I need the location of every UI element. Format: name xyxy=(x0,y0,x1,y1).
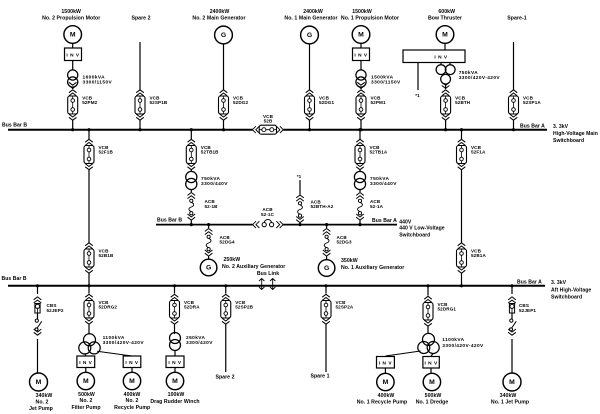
bus link marks xyxy=(257,271,279,290)
node bus junction xyxy=(325,223,328,226)
svg-text:G: G xyxy=(307,32,312,39)
svg-text:Bus Bar B: Bus Bar B xyxy=(2,276,27,282)
svg-text:*1: *1 xyxy=(297,174,302,179)
breaker VCB 52B1B xyxy=(84,243,114,273)
breaker VCB 52SP2B xyxy=(221,294,254,324)
node bus junction xyxy=(190,128,193,131)
svg-text:600kW: 600kW xyxy=(438,9,455,15)
svg-text:52DRA: 52DRA xyxy=(184,305,200,310)
inverter INV - No. 2 recycle pump xyxy=(123,356,141,368)
svg-text:250kW: 250kW xyxy=(224,257,241,263)
node bus junction xyxy=(444,128,447,131)
svg-text:Spare-1: Spare-1 xyxy=(507,16,526,22)
motor M - No. 1 Propulsion Motor xyxy=(352,26,370,44)
breaker VCB 52DRA xyxy=(170,294,201,324)
svg-text:100kW: 100kW xyxy=(168,392,185,398)
svg-text:52DRG1: 52DRG1 xyxy=(438,307,457,312)
wire xyxy=(174,286,176,294)
label 3.3kV High-Voltage Main Switchboard xyxy=(553,124,598,144)
wire xyxy=(190,221,192,225)
fuse contactor CBS 52JEP1 xyxy=(508,297,516,313)
svg-text:No. 1 Dredge: No. 1 Dredge xyxy=(416,400,449,406)
wire xyxy=(427,327,429,334)
breaker VCB 52DRG2 xyxy=(84,294,117,324)
svg-text:No. 1 Main Generator: No. 1 Main Generator xyxy=(284,16,337,22)
svg-text:M: M xyxy=(129,378,135,385)
svg-text:No. 2 Propulsion Motor: No. 2 Propulsion Motor xyxy=(42,16,100,22)
wire xyxy=(445,84,447,89)
svg-text:I N V: I N V xyxy=(125,360,138,366)
wire xyxy=(513,120,515,130)
breaker ACB 52-1A xyxy=(356,193,364,221)
svg-text:3300/1150V: 3300/1150V xyxy=(83,80,113,86)
svg-text:No. 1 Auxiliary Generator: No. 1 Auxiliary Generator xyxy=(341,265,404,271)
wire xyxy=(174,325,176,335)
breaker VCB 52DG1 xyxy=(305,90,335,120)
svg-text:1500kW: 1500kW xyxy=(352,9,372,15)
wire xyxy=(360,61,362,71)
wire xyxy=(72,120,74,130)
svg-text:Bus Bar A: Bus Bar A xyxy=(517,279,542,285)
svg-text:52F1A: 52F1A xyxy=(471,150,486,155)
motor M - Drag Rudder Winch xyxy=(166,372,183,389)
node bus junction xyxy=(510,284,513,287)
breaker ACB 52DG4 xyxy=(205,229,213,257)
svg-text:52SP2A: 52SP2A xyxy=(336,305,354,310)
svg-text:500kW: 500kW xyxy=(425,393,442,399)
inverter INV - No. 2 filter pump xyxy=(77,356,95,368)
generator G - No. 1 Auxiliary Generator xyxy=(318,260,335,277)
wire xyxy=(37,286,39,294)
wire xyxy=(360,43,362,48)
label No. 1 Recycle Pump xyxy=(357,393,408,406)
wire xyxy=(190,190,192,192)
svg-text:M: M xyxy=(509,379,515,386)
wire xyxy=(384,368,386,373)
node bus junction xyxy=(358,223,361,226)
svg-text:I N V: I N V xyxy=(425,360,438,366)
wire xyxy=(174,368,176,373)
node bus junction xyxy=(138,128,141,131)
svg-text:No. 1 Propulsion Motor: No. 1 Propulsion Motor xyxy=(341,16,399,22)
svg-text:M: M xyxy=(172,378,178,385)
wire feeder to aft switchboard (stbd) xyxy=(461,169,463,243)
breaker VCB 52SP1B xyxy=(135,90,168,120)
wire xyxy=(359,190,361,192)
bus bar B (main HV switchboard, left section) xyxy=(8,129,253,131)
inverter INV - bow thruster (wide) xyxy=(403,50,465,63)
svg-text:52JEP1: 52JEP1 xyxy=(519,308,536,313)
wire xyxy=(461,273,463,286)
svg-text:52SP1A: 52SP1A xyxy=(523,100,541,105)
wire xyxy=(88,130,90,140)
svg-text:3300/440V: 3300/440V xyxy=(201,181,228,187)
wire xyxy=(131,368,133,373)
motor M - No. 2 Jet Pump xyxy=(30,373,48,391)
svg-text:3300/420V-420V: 3300/420V-420V xyxy=(459,75,501,81)
node bus junction xyxy=(173,284,176,287)
label 3.3kV Aft High-Voltage Switchboard xyxy=(551,280,591,301)
disconnect switch (No.1 jet pump) xyxy=(508,319,516,335)
svg-text:52DG2: 52DG2 xyxy=(233,100,248,105)
breaker VCB 52PM2 xyxy=(68,90,98,120)
svg-text:No. 2 Main Generator: No. 2 Main Generator xyxy=(192,16,245,22)
wire xyxy=(190,130,192,140)
svg-text:2400kW: 2400kW xyxy=(303,9,323,15)
wire feeder to aft switchboard (port) xyxy=(88,169,90,243)
generator G - No. 1 Main Generator xyxy=(301,26,319,44)
breaker VCB 52BTH xyxy=(441,90,471,120)
inverter INV - No. 1 dredge pump xyxy=(423,357,439,369)
svg-text:400kW: 400kW xyxy=(378,393,395,399)
svg-text:52B1A: 52B1A xyxy=(471,253,486,258)
wire xyxy=(88,325,90,335)
node bus junction xyxy=(207,223,210,226)
node bus junction xyxy=(308,128,311,131)
node bus junction xyxy=(298,223,301,226)
wire xyxy=(299,223,301,225)
wire xyxy=(440,63,442,66)
generator G - No. 2 Auxiliary Generator xyxy=(200,259,217,276)
wire xyxy=(511,313,513,319)
wire xyxy=(309,120,311,130)
wire diagonal to recycle inverter (No.1) xyxy=(386,351,421,356)
svg-text:52SP1B: 52SP1B xyxy=(150,100,168,105)
breaker VCB 52PM1 xyxy=(356,90,386,120)
svg-text:M: M xyxy=(36,379,42,386)
svg-text:52DG1: 52DG1 xyxy=(319,100,334,105)
svg-text:*1: *1 xyxy=(415,93,420,98)
svg-text:Drag Rudder Winch: Drag Rudder Winch xyxy=(150,399,199,405)
svg-text:No. 1 Recycle Pump: No. 1 Recycle Pump xyxy=(357,400,408,406)
wire xyxy=(208,225,210,228)
wire xyxy=(427,286,429,296)
bus bar A (440V low-voltage switchboard) xyxy=(283,224,397,226)
svg-text:440V: 440V xyxy=(399,219,412,225)
disconnect switch (No.2 jet pump) xyxy=(34,319,42,335)
svg-text:3. 3kV: 3. 3kV xyxy=(553,124,569,130)
svg-text:No. 2: No. 2 xyxy=(126,398,139,404)
svg-text:52B1B: 52B1B xyxy=(99,253,114,258)
wire diagonal to recycle inverter xyxy=(97,351,132,356)
svg-text:Spare 2: Spare 2 xyxy=(131,16,150,22)
svg-text:Bow Thruster: Bow Thruster xyxy=(428,16,462,22)
node bus junction xyxy=(222,128,225,131)
label No. 2 Recycle Pump xyxy=(114,392,150,411)
wire xyxy=(326,257,328,260)
svg-text:52BTH-A2: 52BTH-A2 xyxy=(311,204,334,209)
wire xyxy=(359,169,361,172)
svg-text:52PM2: 52PM2 xyxy=(82,100,97,105)
svg-text:52DRG2: 52DRG2 xyxy=(99,305,118,310)
wire xyxy=(88,286,90,294)
wire xyxy=(225,325,227,373)
svg-text:52SP2B: 52SP2B xyxy=(235,305,253,310)
svg-text:No. 2: No. 2 xyxy=(80,398,93,404)
breaker ACB 52-1B xyxy=(188,193,196,221)
motor M - No. 1 Recycle Pump xyxy=(377,373,394,390)
breaker VCB 52SP1A xyxy=(509,90,542,120)
wire xyxy=(360,87,362,89)
svg-text:Bus Bar A: Bus Bar A xyxy=(372,218,397,224)
svg-text:I N V: I N V xyxy=(354,52,367,58)
svg-text:I N V: I N V xyxy=(66,52,79,58)
svg-text:52DG4: 52DG4 xyxy=(220,239,235,244)
wire xyxy=(309,44,311,90)
transformer 1500kVA 3300/1150V xyxy=(356,70,366,87)
inverter INV - No. 1 propulsion xyxy=(353,48,370,61)
svg-text:3300/440V: 3300/440V xyxy=(370,181,397,187)
motor M - No. 1 Dredge Pump xyxy=(423,373,440,390)
wire xyxy=(511,286,513,294)
svg-text:3300/420V: 3300/420V xyxy=(186,340,213,346)
svg-text:52-1B: 52-1B xyxy=(205,204,219,209)
breaker VCB 52DRG1 xyxy=(423,296,456,326)
label No. 1 Jet Pump xyxy=(491,393,529,406)
svg-text:M: M xyxy=(383,379,389,386)
svg-text:M: M xyxy=(429,379,435,386)
svg-text:Aft High-Voltage: Aft High-Voltage xyxy=(551,287,591,293)
wire xyxy=(72,43,74,48)
svg-text:Switchboard: Switchboard xyxy=(551,295,582,301)
svg-text:Switchboard: Switchboard xyxy=(399,232,430,238)
wire xyxy=(325,325,327,373)
transformer 250kVA 3300/420V xyxy=(170,333,181,351)
breaker VCB 52DG2 xyxy=(219,90,249,120)
svg-text:Bus Bar B: Bus Bar B xyxy=(2,122,27,128)
svg-text:440 V Low-Voltage: 440 V Low-Voltage xyxy=(399,226,445,232)
svg-text:Bus Bar A: Bus Bar A xyxy=(520,123,545,129)
svg-text:High-Voltage Main: High-Voltage Main xyxy=(553,131,598,137)
node bus junction xyxy=(224,284,227,287)
breaker ACB 52DG3 xyxy=(323,229,331,257)
svg-text:M: M xyxy=(358,32,364,39)
svg-text:1100kVA: 1100kVA xyxy=(442,337,464,343)
motor M - Bow Thruster xyxy=(436,26,454,44)
svg-text:M: M xyxy=(70,32,76,39)
transformer 1600kVA 3300/1150V xyxy=(68,70,78,87)
svg-text:I N V: I N V xyxy=(434,54,447,60)
wire xyxy=(37,339,39,373)
svg-text:52F1B: 52F1B xyxy=(99,150,114,155)
svg-text:G: G xyxy=(324,265,329,272)
wire xyxy=(85,368,87,373)
node bus junction xyxy=(359,128,362,131)
label No. 1 Auxiliary Generator xyxy=(341,258,404,271)
svg-text:52DG3: 52DG3 xyxy=(337,239,352,244)
svg-text:500kW: 500kW xyxy=(78,392,95,398)
svg-text:3300/420V-420V: 3300/420V-420V xyxy=(442,343,484,349)
svg-text:52BTH: 52BTH xyxy=(455,100,471,105)
node bus junction xyxy=(190,223,193,226)
wire xyxy=(461,130,463,140)
svg-text:350kW: 350kW xyxy=(341,258,358,264)
motor M - No. 2 Propulsion Motor xyxy=(64,26,82,44)
label Drag Rudder Winch xyxy=(150,392,199,405)
transformer 750kVA 3300/440V (No.1) xyxy=(354,171,365,189)
svg-text:340kW: 340kW xyxy=(500,393,517,399)
svg-text:3. 3kV: 3. 3kV xyxy=(551,280,567,286)
wire xyxy=(223,44,225,90)
wire xyxy=(174,351,176,357)
motor M - No. 1 Jet Pump xyxy=(503,373,521,391)
inverter INV - drag rudder winch xyxy=(166,356,184,368)
svg-text:Spare 1: Spare 1 xyxy=(310,374,329,380)
svg-text:G: G xyxy=(206,265,211,272)
svg-text:Filter Pump: Filter Pump xyxy=(71,405,100,411)
wire xyxy=(139,120,141,130)
wire xyxy=(431,354,433,357)
label No. 2 Filter Pump xyxy=(71,392,100,411)
label No. 2 Auxiliary Generator xyxy=(222,257,285,270)
wire xyxy=(511,339,513,373)
svg-text:340kW: 340kW xyxy=(36,393,53,399)
wire xyxy=(225,286,227,294)
wire xyxy=(444,43,446,50)
svg-text:I N V: I N V xyxy=(79,360,92,366)
wire xyxy=(359,130,361,140)
svg-text:M: M xyxy=(83,378,89,385)
svg-text:M: M xyxy=(442,32,448,39)
svg-text:52TB1A: 52TB1A xyxy=(370,150,388,155)
svg-text:Bus Link: Bus Link xyxy=(257,271,279,277)
label No. 1 Dredge xyxy=(416,393,449,406)
node bus junction xyxy=(460,128,463,131)
wire xyxy=(326,225,328,228)
breaker VCB 52B1A xyxy=(457,243,487,273)
svg-text:I N V: I N V xyxy=(168,360,181,366)
svg-text:3300/1150V: 3300/1150V xyxy=(371,80,401,86)
wire xyxy=(223,120,225,130)
wire xyxy=(85,354,86,356)
breaker VCB 52TB1A xyxy=(355,139,388,169)
node bus junction xyxy=(426,284,429,287)
svg-text:52JEP2: 52JEP2 xyxy=(47,308,64,313)
svg-text:52PM1: 52PM1 xyxy=(371,100,386,105)
node bus junction xyxy=(36,284,39,287)
svg-text:Recycle Pump: Recycle Pump xyxy=(114,405,150,411)
breaker VCB 52F1A xyxy=(457,139,486,169)
node bus junction xyxy=(71,128,74,131)
svg-text:2400kW: 2400kW xyxy=(210,9,230,15)
wire xyxy=(190,169,192,172)
breaker VCB 52SP2A xyxy=(321,294,354,324)
inverter INV - No. 1 recycle pump xyxy=(377,357,395,369)
svg-text:No. 1 Jet Pump: No. 1 Jet Pump xyxy=(491,400,529,406)
svg-text:Spare 2: Spare 2 xyxy=(215,375,234,381)
svg-text:52-1A: 52-1A xyxy=(370,204,384,209)
svg-text:No. 2: No. 2 xyxy=(36,400,49,406)
wire xyxy=(430,368,432,373)
wire xyxy=(72,61,74,71)
svg-text:400kW: 400kW xyxy=(124,392,141,398)
wire xyxy=(88,273,90,286)
label No. 2 Jet Pump xyxy=(29,393,53,412)
wire xyxy=(208,257,210,260)
wire xyxy=(449,63,451,66)
svg-text:Bus Bar B: Bus Bar B xyxy=(157,218,182,224)
breaker VCB 52F1B xyxy=(84,139,113,169)
breaker VCB 52TB1B xyxy=(186,139,219,169)
fuse contactor CBS 52JEP2 xyxy=(34,297,42,313)
bus tie breaker VCB 52B (main bus) xyxy=(252,114,283,134)
bus bar B (aft HV switchboard, left section) xyxy=(8,285,545,287)
svg-text:52TB1B: 52TB1B xyxy=(201,150,219,155)
bus bar B (440V low-voltage switchboard) xyxy=(156,224,253,226)
svg-text:Switchboard: Switchboard xyxy=(553,138,584,144)
svg-text:3300/420V-420V: 3300/420V-420V xyxy=(103,340,145,346)
wire xyxy=(139,42,141,90)
label 440 V Low-Voltage Switchboard xyxy=(399,226,445,239)
node bus junction xyxy=(512,128,515,131)
svg-text:Jet Pump: Jet Pump xyxy=(29,406,53,412)
wire xyxy=(325,286,327,294)
svg-text:I N V: I N V xyxy=(379,360,392,366)
inverter INV - No. 2 propulsion xyxy=(65,48,82,61)
svg-text:52-1C: 52-1C xyxy=(261,212,275,217)
transformer 1100kVA 3300/420V-420V xyxy=(79,334,100,354)
motor M - No. 2 Recycle Pump xyxy=(123,372,140,389)
generator G - No. 2 Main Generator xyxy=(215,26,233,44)
node bus junction xyxy=(87,284,90,287)
breaker ACB 52BTH-A2 xyxy=(296,195,304,223)
node bus junction xyxy=(87,128,90,131)
transformer 1100kVA 3300/420V-420V (No.1) xyxy=(418,333,439,353)
wire xyxy=(37,313,39,319)
node bus junction xyxy=(324,284,327,287)
wire from *1 xyxy=(299,180,301,195)
node bus junction xyxy=(460,284,463,287)
transformer 750kVA 3300/420V-420V xyxy=(436,65,455,84)
wire xyxy=(360,120,362,130)
svg-text:52B: 52B xyxy=(264,118,273,123)
wire xyxy=(72,87,74,89)
bus bar A (main HV switchboard, right section) xyxy=(283,129,547,131)
wire xyxy=(513,42,515,90)
svg-text:G: G xyxy=(221,32,226,39)
motor M - No. 2 Filter Pump xyxy=(77,372,94,389)
wire xyxy=(359,221,361,225)
svg-text:1500kW: 1500kW xyxy=(61,9,81,15)
node bus junction xyxy=(358,128,361,131)
transformer 750kVA 3300/440V xyxy=(186,171,197,189)
wire stub to *1 xyxy=(417,63,419,91)
wire xyxy=(445,120,447,130)
svg-text:No. 2 Auxiliary Generator: No. 2 Auxiliary Generator xyxy=(222,264,285,270)
bus tie breaker ACB 52-1C xyxy=(253,207,284,228)
